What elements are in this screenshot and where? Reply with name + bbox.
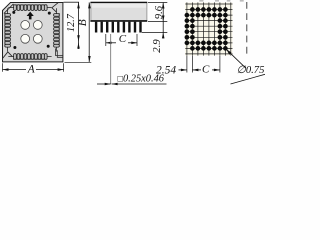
svg-text:C: C [202, 64, 210, 76]
bottom view: pin dots [185, 7, 228, 51]
top view: bottom-left corner key detail [3, 52, 12, 58]
top view: socket outline with chamfered pin-1 corner [3, 3, 63, 62]
top view: pin-1 inner chamfer line [4, 4, 14, 14]
hole diameter leader [226, 49, 246, 68]
top view: bottom-right corner cavity detail [56, 48, 63, 57]
svg-text:2.54: 2.54 [156, 64, 176, 76]
svg-text:∅0.75: ∅0.75 [237, 65, 265, 76]
top view: standoff holes [21, 21, 30, 30]
pin section leader: vertical line [110, 34, 112, 84]
bottom view: cream background [185, 3, 233, 56]
svg-text:A: A [27, 63, 35, 75]
svg-text:2.9: 2.9 [151, 39, 163, 53]
svg-text:B: B [77, 19, 89, 26]
dashed centerline right of bottom view [246, 2, 248, 58]
dimension 12.7: vertical dimension line with arrows [78, 2, 80, 49]
side view: socket body [91, 2, 147, 21]
pin section label with shelf [112, 83, 167, 85]
top view: right contact column [54, 8, 60, 51]
dimension C (side view): dimension line with arrows [106, 42, 116, 44]
top view: left contact column [5, 8, 11, 51]
dimension B: extension lines [64, 1, 80, 3]
dimension C (side view): extension lines [105, 34, 107, 46]
tilted shelf line under diameter label [231, 74, 266, 84]
svg-text:9.6: 9.6 [154, 5, 165, 19]
dimension 9.6: vertical dimension line with arrows [162, 3, 164, 22]
gray remnant dashes at top edge [199, 0, 243, 2]
svg-text:C: C [119, 33, 127, 45]
dimension A: dimension line with arrows [3, 69, 27, 71]
side view: pins [95, 22, 142, 33]
dimension B: vertical dimension line with arrows [88, 2, 90, 62]
svg-text:12.7: 12.7 [66, 13, 77, 32]
dimension 2.9: extension line at pin tips [142, 31, 168, 33]
top view: top-right corner key detail [52, 3, 58, 12]
top view: bottom contact row [8, 54, 51, 60]
dimension 2.9: arrow and line [162, 22, 164, 39]
top view: mounting hole dots [12, 11, 15, 14]
bottom view: grid lines [185, 2, 232, 55]
top view: top contact row [8, 5, 51, 11]
dimension 2.54: extension lines [186, 56, 188, 73]
pin section leader: opposing arrows [97, 83, 111, 85]
top view: orientation arrow marker [27, 12, 34, 20]
dimension A: extension lines [2, 63, 4, 72]
dimension C (bottom view): dimension line with arrows [192, 69, 201, 71]
dimension 9.6: extension lines [148, 2, 167, 4]
